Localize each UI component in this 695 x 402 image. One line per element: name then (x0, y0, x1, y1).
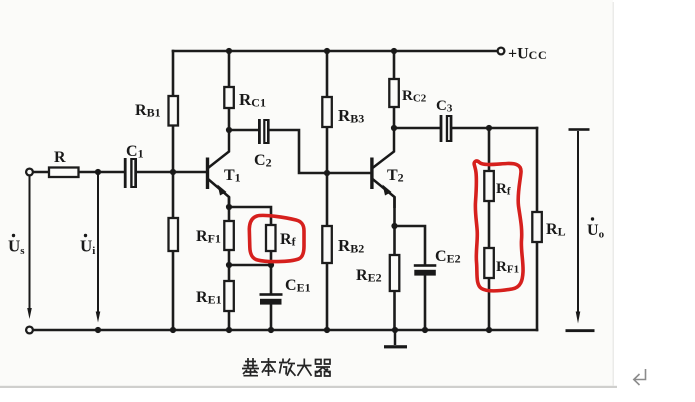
node right feedback top (486, 125, 492, 131)
node input Ui (95, 169, 101, 175)
node bottom Ui (95, 327, 101, 333)
wire T2 emitter vertical (393, 198, 396, 330)
node T2 collector (391, 125, 397, 131)
annotation red circle middle Rf (249, 215, 304, 261)
node CE2 tap (391, 223, 397, 229)
capacitor C2 (258, 119, 270, 144)
transistor T1 (206, 131, 229, 208)
svg-text:Rf: Rf (280, 231, 297, 249)
svg-text:C1: C1 (126, 143, 144, 161)
wire left bias vertical (172, 51, 175, 330)
arrow Ui indicator (96, 174, 101, 323)
node T2 base (324, 170, 330, 176)
resistor R bias lower (169, 218, 179, 251)
wire CE2 branch (395, 226, 426, 330)
arrow Us indicator (27, 176, 32, 319)
svg-text:T2: T2 (387, 167, 404, 185)
svg-text:RE1: RE1 (196, 289, 222, 307)
resistor RE2 (390, 255, 400, 291)
transistor T2 (370, 129, 394, 208)
resistor RF1 (224, 221, 234, 250)
wire T1 emitter chain (228, 198, 231, 330)
resistor RB3 (322, 97, 332, 127)
node top rail RC2 (391, 48, 397, 54)
svg-text:RL: RL (546, 221, 566, 239)
svg-text:T1: T1 (224, 167, 241, 185)
node bottom feedback (486, 327, 492, 333)
node bottom RB2 (324, 327, 330, 333)
node bottom CE1 (268, 327, 274, 333)
wire RC2 branch (393, 51, 396, 128)
wire C3 output line (394, 127, 537, 130)
svg-text:C2: C2 (254, 152, 272, 170)
node top rail RC1 (226, 48, 232, 54)
resistor RB2 (322, 226, 332, 263)
svg-text:CE1: CE1 (285, 277, 311, 295)
node top rail RB3 (324, 48, 330, 54)
node bottom bias (170, 327, 176, 333)
caption 基本放大器 (242, 358, 330, 376)
wire top supply rail (173, 50, 498, 53)
terminal +Ucc (498, 48, 505, 55)
svg-text:CE2: CE2 (435, 248, 461, 266)
arrow Uo indicator (566, 128, 595, 332)
wire RB3 RB2 vertical (326, 51, 329, 330)
capacitor C1 (124, 158, 137, 188)
resistor RF1 right (484, 248, 494, 278)
paragraph return mark (634, 369, 646, 385)
resistor RE1 (224, 281, 234, 311)
resistor Rf middle (266, 225, 276, 251)
resistor Rf right (484, 171, 494, 201)
node T1 collector (226, 127, 232, 133)
node CE1 top (268, 262, 274, 268)
wire RC1 branch (228, 51, 231, 130)
scan bottom edge (0, 386, 617, 388)
terminal input bottom (26, 327, 33, 334)
wire Rf middle branch (229, 207, 271, 265)
scan right edge (613, 2, 615, 386)
wire right feedback branch (488, 128, 491, 330)
resistor R (49, 168, 79, 178)
wire RL branch (536, 128, 539, 330)
resistor RB1 (169, 96, 179, 126)
node bottom RE2 ground (392, 327, 398, 333)
annotation red circle right Rf RF1 (474, 161, 523, 291)
wire C2 coupling path (229, 130, 371, 173)
svg-text:RF1: RF1 (196, 228, 221, 246)
node bottom CE2 (422, 327, 428, 333)
node T1 emitter top (226, 204, 232, 210)
svg-text:R: R (54, 149, 66, 166)
node bottom RE1 (226, 327, 232, 333)
ground (384, 330, 407, 348)
node dots (95, 48, 492, 333)
resistor RC2 (389, 79, 399, 107)
capacitor CE1 (260, 293, 283, 304)
wire bottom rail (33, 329, 538, 332)
terminal input top (26, 169, 33, 176)
resistor RC1 (224, 87, 234, 108)
node RF1 RE1 junction (226, 262, 232, 268)
capacitor CE2 (414, 264, 437, 275)
node input base (170, 169, 176, 175)
capacitor C3 (440, 115, 453, 142)
wire input line (33, 171, 207, 174)
svg-text:RE2: RE2 (356, 267, 382, 285)
resistor RL (532, 212, 542, 242)
svg-text:+UCC: +UCC (508, 46, 547, 63)
svg-text:RB1: RB1 (135, 102, 161, 120)
wire CE1 branch (270, 265, 273, 330)
